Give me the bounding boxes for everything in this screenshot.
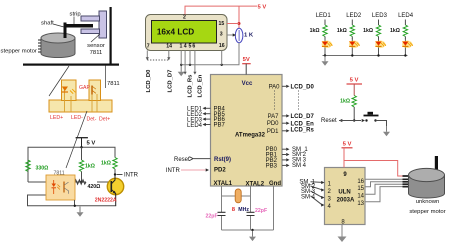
svg-text:ULN: ULN <box>338 190 350 196</box>
svg-text:7811: 7811 <box>107 81 120 87</box>
svg-text:7: 7 <box>147 43 150 49</box>
svg-text:Det+: Det+ <box>99 117 110 123</box>
svg-text:Det-: Det- <box>87 117 97 123</box>
svg-text:5 V: 5 V <box>87 140 96 146</box>
svg-text:SM 4: SM 4 <box>301 194 316 200</box>
svg-text:2: 2 <box>183 14 186 20</box>
svg-text:8: 8 <box>232 207 236 213</box>
svg-text:LED1: LED1 <box>316 13 332 19</box>
svg-text:stepper motor: stepper motor <box>409 209 445 215</box>
svg-text:LED2: LED2 <box>346 13 362 19</box>
svg-text:7811: 7811 <box>90 50 103 56</box>
svg-text:LCD_Rs: LCD_Rs <box>187 74 193 98</box>
svg-text:1kΩ: 1kΩ <box>85 164 95 170</box>
svg-text:LED3: LED3 <box>372 13 388 19</box>
svg-text:1kΩ: 1kΩ <box>337 28 347 34</box>
svg-text:7811: 7811 <box>54 171 65 177</box>
svg-text:15: 15 <box>219 21 225 27</box>
svg-text:5 V: 5 V <box>343 142 352 148</box>
svg-text:420Ω: 420Ω <box>88 184 101 190</box>
svg-text:LCD_En: LCD_En <box>291 121 315 127</box>
svg-text:1kΩ: 1kΩ <box>390 28 400 34</box>
svg-text:5: 5 <box>188 43 191 49</box>
svg-text:ATmega32: ATmega32 <box>235 133 266 139</box>
svg-text:14: 14 <box>357 194 364 200</box>
svg-text:XTAL2: XTAL2 <box>246 181 265 187</box>
svg-text:1kΩ: 1kΩ <box>363 28 373 34</box>
svg-text:13: 13 <box>357 201 364 207</box>
svg-text:sensor: sensor <box>87 43 105 49</box>
svg-text:LCD_D7: LCD_D7 <box>291 114 315 120</box>
svg-text:Vcc: Vcc <box>242 81 253 87</box>
svg-text:PA0: PA0 <box>269 85 281 91</box>
svg-text:PD0: PD0 <box>267 121 279 127</box>
svg-text:LED-: LED- <box>71 115 83 121</box>
svg-text:XTAL1: XTAL1 <box>214 181 233 187</box>
svg-text:PD1: PD1 <box>267 129 279 135</box>
svg-text:2N2222A: 2N2222A <box>95 198 117 204</box>
svg-text:14: 14 <box>166 43 172 49</box>
svg-text:Gnd: Gnd <box>269 181 281 187</box>
svg-text:SM 4: SM 4 <box>292 163 307 169</box>
svg-text:22pF: 22pF <box>206 213 218 219</box>
svg-text:LED4: LED4 <box>187 123 203 129</box>
svg-text:PB7: PB7 <box>214 123 226 129</box>
svg-text:LCD_D0: LCD_D0 <box>146 69 152 93</box>
svg-text:16: 16 <box>219 43 225 49</box>
svg-text:shaft: shaft <box>41 21 54 27</box>
svg-text:Rst(9): Rst(9) <box>214 157 231 163</box>
svg-text:LCD_D0: LCD_D0 <box>291 84 315 90</box>
svg-text:1 K: 1 K <box>244 33 254 39</box>
svg-text:LCD_Rs: LCD_Rs <box>291 128 315 134</box>
svg-text:PD2: PD2 <box>214 167 226 173</box>
svg-text:16: 16 <box>357 179 364 185</box>
svg-text:1kΩ: 1kΩ <box>101 161 111 167</box>
svg-text:INTR: INTR <box>166 168 181 174</box>
svg-text:5 V: 5 V <box>258 5 267 11</box>
svg-text:1kΩ: 1kΩ <box>340 99 350 105</box>
svg-text:330Ω: 330Ω <box>36 166 49 172</box>
svg-text:PA7: PA7 <box>268 114 280 120</box>
svg-text:3: 3 <box>220 32 223 38</box>
svg-text:PB3: PB3 <box>266 163 278 169</box>
svg-text:GAP: GAP <box>79 85 90 91</box>
svg-text:6: 6 <box>192 43 195 49</box>
svg-text:Reset: Reset <box>321 118 337 124</box>
svg-text:4: 4 <box>184 43 187 49</box>
svg-text:5 V: 5 V <box>350 77 359 83</box>
svg-text:15: 15 <box>357 186 364 192</box>
svg-text:LCD_En: LCD_En <box>197 74 203 97</box>
svg-text:1kΩ: 1kΩ <box>310 28 320 34</box>
svg-text:5V: 5V <box>243 57 250 63</box>
svg-text:unknown: unknown <box>416 199 440 205</box>
svg-text:LED4: LED4 <box>398 13 414 19</box>
svg-text:2003A: 2003A <box>337 197 355 203</box>
svg-text:stepper motor: stepper motor <box>1 49 37 55</box>
svg-text:22pF: 22pF <box>255 208 267 214</box>
svg-text:Reset: Reset <box>174 157 190 163</box>
svg-text:INTR: INTR <box>124 173 139 179</box>
svg-text:16x4 LCD: 16x4 LCD <box>157 28 194 37</box>
svg-text:strip: strip <box>70 12 82 18</box>
svg-text:LCD_D7: LCD_D7 <box>168 69 174 93</box>
svg-text:1: 1 <box>180 43 183 49</box>
svg-text:LED+: LED+ <box>50 115 63 121</box>
